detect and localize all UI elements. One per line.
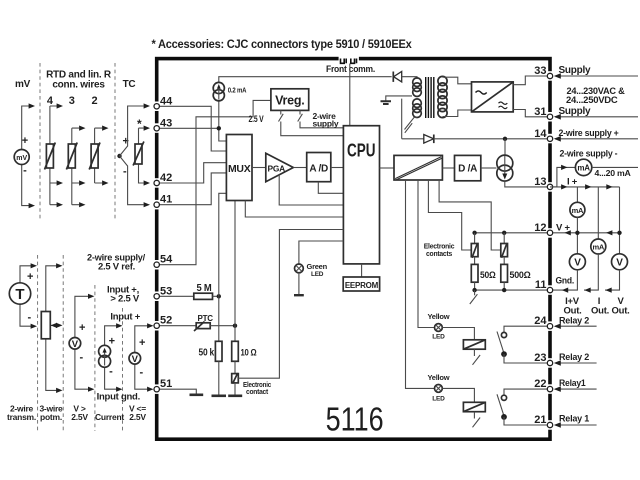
- wire relay2 24 arrow: [555, 325, 597, 327]
- arrow RTD2 mid: [102, 180, 108, 185]
- arrow cursrc bottom: [116, 387, 122, 392]
- wire junction up to MUX input5: [219, 193, 227, 296]
- arrow RTD2 top: [102, 126, 108, 131]
- svg-text:33: 33: [534, 65, 546, 77]
- left border terminal gaps: [154, 71, 553, 430]
- terminal 12: [547, 230, 552, 235]
- wire 5M to junction: [213, 295, 219, 297]
- svg-text:T: T: [15, 286, 24, 303]
- svg-text:-: -: [28, 312, 32, 324]
- node Gnd A: [472, 288, 476, 292]
- svg-text:> 2.5 V: > 2.5 V: [110, 294, 140, 305]
- wire V+ line: [553, 217, 620, 254]
- relay contact 2: [501, 332, 506, 337]
- terminal 41: [154, 202, 159, 207]
- wire relay1 22 arrow: [555, 388, 597, 390]
- svg-text:+: +: [22, 135, 28, 147]
- arrow TC comp top: [144, 126, 150, 131]
- terminal 33: [547, 73, 552, 78]
- svg-text:3: 3: [69, 95, 75, 107]
- arrow RTD4 top: [57, 103, 63, 108]
- svg-text:V: V: [132, 354, 139, 365]
- svg-text:LED: LED: [311, 271, 324, 278]
- wire secondary to converter: [443, 77, 472, 116]
- converter D/A box: [455, 155, 481, 180]
- terminal 24: [547, 324, 552, 329]
- arrow Vsrc2 top: [147, 323, 153, 328]
- svg-text:Relay 2: Relay 2: [559, 315, 589, 326]
- current source wires: [105, 326, 117, 389]
- svg-text:LED: LED: [432, 396, 445, 403]
- wire terminal 43 to junction: [157, 127, 219, 129]
- wire AD bottom tap to CPU: [318, 182, 343, 194]
- relay contact 1: [501, 395, 506, 400]
- wire DA to current source: [481, 167, 497, 169]
- ammeter I out: [591, 239, 606, 254]
- arrow pot top: [56, 263, 62, 268]
- resistor 10 ohm: [232, 341, 239, 361]
- wire V+ to contact2: [503, 233, 505, 244]
- svg-text:+: +: [109, 336, 115, 348]
- svg-text:Relay 1: Relay 1: [559, 414, 590, 425]
- svg-text:+: +: [27, 271, 33, 283]
- ground below 50k: [212, 394, 227, 397]
- wire terminal 42 to MUX: [157, 163, 227, 183]
- arrow cursrc top: [116, 323, 122, 328]
- ground input gnd: [190, 393, 204, 396]
- electronic contact 1: [471, 243, 478, 258]
- svg-text:Gnd.: Gnd.: [556, 275, 575, 286]
- terminal circles left: [154, 73, 553, 427]
- svg-text:Current: Current: [95, 412, 124, 422]
- svg-text:41: 41: [160, 194, 172, 206]
- arrow TC outer top: [144, 103, 150, 108]
- transformer T1 primary winding top: [413, 78, 422, 97]
- wire isolation to DA: [442, 167, 454, 169]
- svg-text:4: 4: [47, 95, 54, 107]
- svg-text:Relay 2: Relay 2: [559, 352, 589, 363]
- wire iso tap4 to contact2: [439, 180, 501, 250]
- dashed separator V|Current: [94, 285, 96, 431]
- arrow Vsrc2 bottom: [147, 387, 153, 392]
- svg-text:0.2 mA: 0.2 mA: [228, 85, 247, 94]
- svg-text:conn. wires: conn. wires: [52, 80, 105, 91]
- LED yellow relay1: [435, 385, 443, 393]
- svg-text:2.5V: 2.5V: [71, 412, 88, 422]
- converter A/D: [307, 153, 331, 182]
- V source 2 wires: [135, 326, 148, 389]
- terminal 31: [547, 114, 552, 119]
- arrow RTD3 mid: [79, 180, 85, 185]
- wire CPU to electronic contact input: [238, 230, 343, 379]
- isolation barrier box: [394, 155, 442, 180]
- ground below green LED: [294, 294, 304, 296]
- op-amp PGA: [266, 153, 294, 181]
- node V+ A: [472, 231, 476, 235]
- multiplexer MUX: [226, 135, 252, 201]
- svg-text:Relay1: Relay1: [559, 378, 586, 389]
- terminal 22: [547, 386, 552, 391]
- svg-text:I +: I +: [567, 176, 578, 187]
- terminal 44: [154, 104, 159, 109]
- wire V+ to contact1: [474, 233, 476, 244]
- svg-text:Out.: Out.: [612, 306, 630, 317]
- svg-text:+: +: [79, 322, 85, 334]
- node 52 junction: [233, 324, 237, 328]
- ground below input contact: [228, 394, 242, 397]
- wire CPU to isolation: [380, 167, 395, 169]
- wire junction down to 10ohm: [234, 326, 236, 342]
- node V+ branchA: [575, 231, 579, 235]
- TC outer wire to 44 and 41: [120, 106, 144, 205]
- V source 2 circle: [129, 353, 141, 365]
- svg-text:2.5 V: 2.5 V: [249, 114, 265, 125]
- wire V+ line 12: [475, 232, 548, 234]
- front comm connector: [341, 59, 357, 64]
- arrow mV bottom: [29, 203, 35, 208]
- wire terminal 44 to MUX: [157, 106, 227, 151]
- svg-text:14: 14: [534, 128, 547, 140]
- node V+ branchC: [617, 231, 621, 235]
- svg-text:10 Ω: 10 Ω: [241, 348, 257, 358]
- svg-text:54: 54: [160, 254, 173, 266]
- wire relay2 23 arrow: [555, 362, 597, 364]
- svg-text:-: -: [23, 165, 27, 177]
- svg-text:TC: TC: [123, 79, 136, 90]
- svg-text:Out.: Out.: [591, 306, 609, 317]
- wire supply to output current source: [504, 139, 506, 155]
- arrow RTD4 mid: [57, 180, 63, 185]
- svg-text:5116: 5116: [326, 402, 384, 439]
- wire converter to terminal 33: [513, 76, 547, 85]
- svg-text:42: 42: [160, 172, 172, 184]
- transmitter T wires: [20, 266, 31, 326]
- wire terminal 51 to ground: [157, 389, 197, 394]
- dashed separator potm|V: [62, 255, 64, 431]
- wire terminal 54 to Vreg input: [157, 100, 271, 264]
- wire Gnd line 11: [475, 282, 548, 290]
- arrow RTD3 top: [79, 126, 85, 131]
- svg-text:24...250VDC: 24...250VDC: [566, 95, 618, 105]
- node Gnd B: [502, 288, 506, 292]
- wire terminal 13 to mA meter: [550, 167, 575, 187]
- potentiometer body: [41, 312, 50, 339]
- node 43 junction dot: [217, 126, 221, 130]
- wire iso tap2 to relay2 LED: [418, 180, 435, 328]
- svg-text:Input gnd.: Input gnd.: [97, 392, 140, 403]
- svg-text:V: V: [72, 339, 79, 350]
- terminal 11: [547, 287, 552, 292]
- voltmeter I+V out: [569, 254, 585, 270]
- relay coil 2: [463, 340, 485, 349]
- svg-text:PGA: PGA: [268, 163, 286, 173]
- wire terminal 41 to MUX: [157, 173, 227, 205]
- svg-text:mA: mA: [577, 163, 590, 172]
- svg-text:MUX: MUX: [228, 163, 251, 175]
- wire AD to CPU: [331, 167, 344, 169]
- wire PTC to junction: [210, 325, 235, 327]
- resistor RTD2: [89, 143, 100, 170]
- wire MUX to PGA: [252, 167, 266, 169]
- transformer T1 secondary winding: [438, 76, 447, 117]
- terminal 51: [154, 387, 159, 392]
- svg-text:Yellow: Yellow: [427, 312, 449, 321]
- wire terminal 53 to 5M resistor: [157, 295, 194, 297]
- svg-text:D /A: D /A: [458, 164, 477, 175]
- svg-text:transm.: transm.: [7, 412, 36, 422]
- V source 1 wires: [75, 296, 89, 389]
- svg-text:+: +: [139, 337, 145, 349]
- arrow RTD4 bottom: [57, 202, 63, 207]
- svg-text:50Ω: 50Ω: [480, 270, 496, 280]
- wire I+ line: [553, 187, 620, 254]
- wire diode D2 to terminal 14: [434, 138, 548, 140]
- current source output circles: [497, 155, 513, 171]
- svg-text:mV: mV: [16, 155, 27, 162]
- switch slash relay1: [473, 412, 481, 428]
- LED green indicator: [295, 264, 304, 273]
- wire PGA to AD: [293, 167, 306, 169]
- switch slash chopper: [405, 123, 412, 133]
- terminal 54: [154, 262, 159, 267]
- current source circles: [99, 345, 111, 357]
- regulator Vreg box: [271, 89, 309, 111]
- svg-text:43: 43: [160, 117, 172, 129]
- svg-text:-: -: [140, 367, 144, 379]
- svg-text:23: 23: [534, 352, 546, 364]
- svg-text:PTC: PTC: [198, 314, 214, 323]
- wire current source to terminal 13: [505, 181, 548, 187]
- terminal 43: [154, 126, 159, 131]
- svg-text:31: 31: [534, 106, 546, 118]
- svg-text:-: -: [123, 166, 127, 178]
- wire CPU to EEPROM: [361, 264, 363, 277]
- transformer T1 primary winding bottom: [413, 99, 422, 118]
- svg-text:contact: contact: [246, 387, 269, 396]
- node V+ B: [502, 231, 506, 235]
- wire contact to ground: [234, 383, 236, 396]
- wire junction up to MUX bottom: [234, 201, 236, 326]
- svg-text:4...20 mA: 4...20 mA: [595, 168, 631, 178]
- svg-text:contacts: contacts: [426, 249, 452, 258]
- svg-text:LED: LED: [432, 333, 445, 340]
- svg-text:mV: mV: [15, 79, 31, 90]
- arrow pot bottom: [56, 388, 62, 393]
- wire primary bottom tap: [402, 99, 417, 139]
- terminal 14: [547, 136, 552, 141]
- svg-text:51: 51: [160, 378, 172, 390]
- ammeter loop mA: [575, 159, 591, 175]
- wire iso tap1 to relay1 LED: [406, 180, 435, 388]
- svg-text:22: 22: [534, 378, 546, 390]
- svg-text:Front comm.: Front comm.: [326, 64, 375, 74]
- resistor 50k: [215, 341, 222, 361]
- svg-text:24: 24: [534, 315, 547, 327]
- wire LED to relay2 coil: [442, 328, 474, 340]
- svg-text:2: 2: [92, 95, 98, 107]
- svg-text:5 M: 5 M: [197, 283, 212, 294]
- svg-text:Supply: Supply: [559, 65, 592, 76]
- wire transformer to diode D2: [402, 138, 424, 140]
- svg-text:V: V: [574, 258, 581, 269]
- svg-text:-: -: [109, 366, 113, 378]
- svg-text:-: -: [80, 352, 84, 364]
- main device border box 5116: [157, 59, 550, 440]
- terminal 42: [154, 180, 159, 185]
- resistor 500 ohm: [501, 264, 508, 282]
- link slash 2-wire supply: [298, 110, 344, 127]
- resistor RTD3: [66, 143, 77, 170]
- dashed separator mV|RTD: [39, 63, 41, 219]
- link slash 2.5V: [279, 110, 344, 135]
- wire contact to terminal 21: [504, 417, 548, 425]
- mV source circle: [14, 150, 29, 165]
- potentiometer wires: [46, 266, 61, 391]
- wire terminal 22 to contact: [504, 389, 548, 395]
- arrow TC outer bottom: [144, 202, 150, 207]
- svg-text:13: 13: [534, 176, 546, 188]
- svg-text:21: 21: [534, 414, 546, 426]
- wire contact1 to 50ohm: [474, 257, 476, 265]
- arrow pot wiper right: [56, 323, 62, 328]
- transmitter T circle: [9, 283, 30, 304]
- wire contact to terminal 23: [504, 354, 548, 363]
- wire CPU to green LED: [299, 241, 344, 264]
- V source 1 circle: [69, 338, 81, 350]
- arrow mV top: [29, 103, 35, 108]
- svg-text:Yellow: Yellow: [427, 373, 449, 382]
- terminal 53: [154, 294, 159, 299]
- wire junction 43 down to MUX input1: [219, 128, 227, 141]
- svg-text:CPU: CPU: [347, 139, 376, 160]
- svg-text:Supply: Supply: [559, 106, 592, 117]
- processor CPU box: [343, 126, 379, 264]
- wire diode to transformer: [402, 77, 417, 79]
- arrow RTD3 bottom: [79, 202, 85, 207]
- dashed separator transm|potm: [37, 255, 39, 431]
- svg-text:A /D: A /D: [309, 164, 328, 175]
- svg-text:44: 44: [160, 95, 173, 107]
- svg-text:potm.: potm.: [40, 412, 62, 422]
- switch slash relay2: [473, 349, 481, 365]
- terminal 13: [547, 184, 552, 189]
- electronic contact input: [232, 373, 239, 384]
- wire PGA bottom tap to CPU: [279, 175, 343, 205]
- terminal 52: [154, 323, 159, 328]
- svg-text:supply: supply: [313, 119, 339, 129]
- RTD wire 4: [50, 106, 57, 205]
- terminal 23: [547, 360, 552, 365]
- RTD wire 2: [95, 128, 102, 183]
- gap in top border for front comm connector: [339, 56, 359, 62]
- memory EEPROM box: [343, 277, 379, 291]
- resistor 5M: [194, 293, 213, 299]
- arrow T bottom: [31, 324, 37, 329]
- diode D1 supply rail: [392, 72, 394, 82]
- svg-text:EEPROM: EEPROM: [345, 281, 379, 290]
- diode D2 to 2-wire supply: [424, 135, 434, 144]
- svg-text:11: 11: [535, 279, 547, 291]
- wire 10ohm to electronic contact: [234, 361, 236, 373]
- arrow TC comp bottom: [144, 180, 150, 185]
- svg-text:2-wire supply -: 2-wire supply -: [560, 149, 618, 159]
- RTD wire 3: [72, 128, 79, 205]
- mV source wire: [22, 106, 29, 206]
- terminal 21: [547, 422, 552, 427]
- resistor 50 ohm: [471, 264, 478, 282]
- wire green LED to ground: [298, 273, 300, 295]
- wire front comm to CPU: [349, 64, 351, 126]
- svg-text:mA: mA: [572, 206, 584, 215]
- svg-text:52: 52: [160, 315, 172, 327]
- svg-text:50 k: 50 k: [199, 348, 215, 359]
- resistor CJC (marked *): [133, 142, 144, 166]
- current source 0.2mA wires: [219, 77, 392, 129]
- wire MUX bottom tap to CPU: [245, 201, 343, 218]
- svg-text:mA: mA: [593, 243, 605, 252]
- wire mA meter right: [592, 166, 638, 168]
- converter AC/DC box: [472, 82, 514, 112]
- svg-text:Green: Green: [307, 262, 328, 271]
- svg-text:12: 12: [534, 222, 546, 234]
- wire terminal 24 to contact: [504, 326, 548, 333]
- svg-text:Input +: Input +: [110, 312, 140, 323]
- wire Gnd line: [553, 254, 620, 290]
- TC compensation wire to 43 and 42: [139, 128, 144, 183]
- arrow Vsrc1 top: [88, 294, 94, 299]
- node 53 junction: [217, 294, 221, 298]
- voltmeter V out: [612, 254, 628, 270]
- arrow T top: [31, 263, 37, 268]
- svg-text:* Accessories: CJC connectors: * Accessories: CJC connectors type 5910 …: [152, 39, 413, 51]
- svg-text:Vreg.: Vreg.: [275, 94, 304, 108]
- current source 0.2mA circles: [213, 82, 224, 93]
- TC node dot: [117, 154, 121, 158]
- thermistor PTC: [194, 322, 210, 332]
- svg-text:V: V: [616, 258, 623, 269]
- wire converter to terminal 31: [513, 110, 547, 117]
- svg-text:2-wire supply +: 2-wire supply +: [559, 128, 619, 138]
- arrow pot wiper left: [51, 323, 57, 328]
- svg-text:2.5V: 2.5V: [129, 412, 146, 422]
- wire junction down to 50k: [218, 296, 220, 341]
- resistor RTD4: [45, 143, 56, 170]
- wire supply arrow 31: [555, 116, 638, 118]
- svg-text:500Ω: 500Ω: [510, 270, 531, 280]
- svg-text:2.5 V ref.: 2.5 V ref.: [98, 262, 135, 273]
- switch slash gnd: [470, 290, 478, 304]
- wire iso tap3 to contact1: [428, 180, 471, 250]
- wire terminal 52 to PTC: [157, 325, 197, 327]
- wire 2-wire supply plus arrow: [555, 138, 638, 140]
- svg-text:*: *: [137, 117, 142, 131]
- LED yellow relay2: [435, 324, 443, 332]
- ammeter I+V out: [570, 202, 585, 217]
- wire LED to relay1 coil: [442, 388, 474, 402]
- ground transformer: [386, 96, 412, 101]
- wire supply arrow 33: [555, 75, 638, 77]
- dashed separator RTD|TC: [114, 63, 116, 219]
- wire 50k to ground: [218, 361, 220, 395]
- svg-text:53: 53: [160, 285, 172, 297]
- electronic contact 2: [501, 243, 508, 258]
- transformer T1 core: [426, 77, 434, 118]
- wire contact2 to 500ohm: [503, 257, 505, 265]
- wire relay1 21 arrow: [555, 424, 597, 426]
- node supply junction: [503, 137, 507, 141]
- dashed separator Current|V2: [122, 308, 124, 431]
- relay coil 1: [463, 402, 485, 411]
